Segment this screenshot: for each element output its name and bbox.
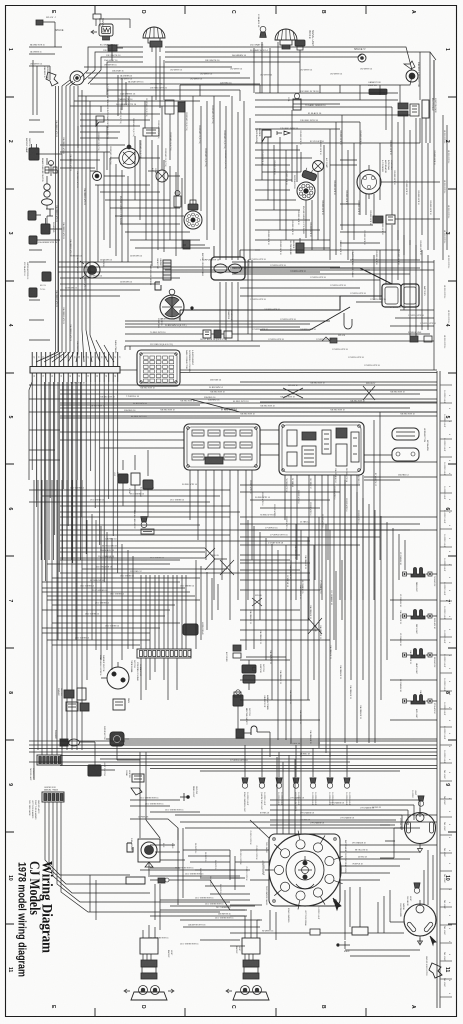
cigar lighter (132, 774, 144, 782)
wire bulb row stems (245, 762, 347, 777)
splice B cross (283, 388, 303, 398)
starting motor (160, 295, 184, 319)
marker and reflector left (46, 72, 58, 86)
headlamp dimmer comps (118, 474, 128, 483)
wire engine mid extra verticals (98, 136, 182, 266)
wire right engine horizontals (255, 150, 440, 248)
wire solenoid bus y321-346 (125, 321, 434, 346)
wire q6 extra horizontals (240, 560, 437, 720)
high beam indicator (141, 517, 147, 528)
wire tail left (143, 925, 155, 938)
wire splice fan extra (84, 67, 260, 84)
fuse panel comb (30, 367, 120, 374)
fuel pipe (127, 843, 133, 852)
horn (84, 262, 100, 278)
temperature sender right (262, 130, 271, 142)
cluster center detail (303, 861, 307, 865)
connector left edge 2 (29, 236, 37, 244)
splice arrow mid (277, 131, 290, 135)
wire big horizontal bus y745 (29, 745, 437, 762)
wire left vertical bundle upper (61, 86, 63, 148)
battery (382, 284, 401, 307)
cluster bulb row (242, 778, 248, 788)
distributor cap right (302, 167, 319, 181)
wire left bundle extra lines (55, 86, 57, 352)
wire top left corner (29, 19, 130, 115)
wire left horizontals to engine (70, 96, 230, 126)
wire white 16 run (230, 932, 404, 934)
wire y385-418 band (29, 385, 437, 416)
wire bottom center extra (150, 845, 250, 894)
headlamp right (275, 29, 297, 49)
right margin double line (437, 371, 440, 1008)
wire q7 extra (90, 800, 260, 946)
wire q6 top horizontals (240, 517, 437, 545)
wire tail right (230, 910, 262, 938)
wire q8 verticals (270, 887, 360, 940)
wire engine area horizontals (80, 132, 205, 245)
tail lamp right (242, 938, 260, 979)
wire top right drops (254, 42, 434, 143)
distributor right (297, 182, 315, 200)
wire ignition harness right (255, 93, 420, 143)
wire q8 gauge verticals (378, 850, 433, 933)
wire mid verticals to dash (220, 96, 250, 260)
voltmeter (405, 813, 436, 844)
wire bus y745 extras (60, 766, 437, 772)
wire comb q7 drops (45, 802, 230, 912)
wire left bundle lower (33, 480, 35, 750)
AC comp right (313, 161, 324, 172)
starter solenoid mid comps (203, 330, 211, 338)
wire left column links (36, 154, 62, 240)
TCS cluster (42, 272, 51, 281)
wire cluster right harness (340, 845, 437, 880)
connector left edge (28, 211, 36, 220)
neutral safety switch comp (233, 695, 243, 706)
distributor cap left (188, 204, 198, 210)
ground connector (93, 172, 102, 181)
acc feed comps (233, 645, 241, 651)
park and signal lamp right (295, 40, 305, 50)
wire headlamp bus left (88, 47, 143, 70)
wire tan right (364, 455, 437, 480)
marker and reflector right (406, 70, 418, 82)
wire left bundle mid (61, 148, 63, 262)
wire q4 right verticals (374, 220, 434, 370)
connector small 8B (108, 45, 117, 51)
fusible link comps (322, 337, 330, 341)
connector comb q7 (42, 792, 64, 802)
instrument cluster plate (269, 834, 340, 906)
wire tail feed verticals (140, 752, 160, 838)
brake failure switch (45, 161, 57, 177)
wire bus y741 (29, 740, 437, 742)
panel light ground (180, 793, 188, 801)
electronic ignition pack (422, 100, 429, 118)
windshield wiper washer switch (107, 667, 129, 689)
splice E cross (363, 386, 375, 400)
turn signal flasher (60, 739, 68, 746)
splice diagonals q5 (205, 548, 227, 570)
cluster radial stubs (265, 831, 343, 910)
wire q8 low horizontals (230, 870, 420, 956)
wire pink 18 (130, 819, 178, 840)
lighting relay block (279, 422, 364, 475)
gasoline gauge (404, 904, 436, 936)
wire right engine verticals (262, 60, 434, 260)
alternator 6 cylinder (119, 148, 139, 168)
voltmeter wires (380, 825, 395, 841)
gasoline gauge pointer (430, 936, 436, 945)
ground arrow q8 (340, 941, 350, 949)
tail lamp left (140, 938, 158, 979)
wire q6 diagonals (308, 618, 322, 634)
wire block top labels (60, 430, 279, 455)
marker and reflector bottom right (429, 963, 442, 978)
small comp q6 bottom (236, 729, 244, 738)
heat light (411, 649, 425, 659)
horn button switches right (392, 428, 419, 440)
inline resistor q8 (310, 929, 320, 935)
wire engine mid extra horizontals (60, 145, 210, 248)
wire q8 harness upper (270, 800, 420, 830)
wire upper mid verticals (112, 44, 164, 116)
splice C diagonal (252, 598, 262, 606)
light switch (88, 765, 101, 776)
wiper motor (106, 732, 129, 746)
bottom connector comb q5 (37, 755, 62, 765)
oil gauge light (414, 883, 420, 893)
wire engine area verticals (97, 96, 214, 240)
wire splice drop left (80, 70, 107, 95)
wire q7 long horizontals (175, 815, 437, 910)
wire cluster drops (235, 820, 269, 880)
wire q4 hook (344, 313, 352, 329)
dash panel boundary line (120, 370, 437, 373)
wire engine drops to comb (125, 260, 252, 350)
tail lamp right base (226, 986, 269, 1001)
wire fan into fuse comb (36, 330, 114, 362)
wire top bus extras (107, 52, 420, 103)
wire ignition links (238, 657, 286, 757)
wire q5 extra horizontals (29, 490, 230, 645)
headlamp left (143, 27, 165, 47)
oil pressure sender right (296, 243, 304, 253)
splice label top left (36, 20, 43, 25)
TCS solenoid (41, 224, 50, 234)
wire bottom middle verticals (178, 828, 235, 905)
wire q8 bulb drops (245, 745, 347, 762)
T fitting (46, 209, 54, 216)
air light (411, 695, 425, 705)
wire q4 mid horizontals (60, 399, 240, 418)
distributor left (184, 211, 202, 229)
wire q4 battery cable (180, 307, 350, 330)
fuse panel rear block (184, 424, 260, 470)
alternator 8 cylinder (357, 170, 381, 194)
parking lamp bulb right (260, 26, 266, 37)
wire gauge links (390, 900, 420, 944)
def light (411, 610, 425, 620)
splice junction left (70, 71, 84, 85)
wire q6 extra verticals (248, 480, 405, 740)
right margin stubs (440, 385, 452, 997)
splice connector top right (358, 54, 366, 62)
evaporative canister (165, 100, 174, 114)
wire q5 bottom links (34, 739, 437, 780)
wire q5 mid horizontals (42, 582, 200, 633)
wire block2 links to bus (345, 560, 375, 743)
ignition switch (242, 665, 256, 683)
capacitor jumper bar (369, 89, 387, 95)
wire bus q5 upper (60, 506, 437, 573)
headlamp left pin connector (150, 41, 162, 47)
wire comb drop left edge (29, 382, 41, 560)
cluster light above voltmeter (418, 796, 424, 806)
battery left (211, 257, 245, 280)
park brake comps (113, 699, 125, 710)
wire fuel area (126, 862, 160, 930)
temperature sender left (96, 116, 104, 126)
transmission switch circles (44, 184, 50, 190)
AC comp left (156, 170, 168, 182)
coil left (174, 196, 181, 207)
wire right margin verticals upper (443, 115, 447, 260)
backup lamp switch (29, 144, 39, 160)
wire block2 descenders (285, 412, 380, 680)
fuel sender (138, 839, 160, 862)
temperature sender mid (155, 282, 161, 290)
steering column connector block (137, 350, 180, 386)
voltage regulator rect (143, 128, 159, 136)
wire q5 verticals extra (87, 514, 218, 680)
ballast resistor (126, 877, 145, 884)
turn signal connector comb (137, 649, 191, 658)
cluster pointer arrow (333, 898, 341, 910)
dimmer switch cluster (64, 690, 74, 698)
fan light (411, 568, 425, 578)
neutral safety switch oval (42, 199, 53, 205)
instrument cluster rear view (269, 834, 341, 906)
wire headlamp bus right (165, 47, 358, 62)
junction dot mid (191, 307, 194, 310)
oil pressure sender left (183, 240, 190, 249)
capacitor jumper mid (163, 260, 171, 280)
wire block1 descenders (190, 470, 252, 650)
battery ground cable (330, 268, 392, 284)
wire green white labels (150, 880, 260, 927)
battery cable to solenoid (232, 296, 382, 310)
park and signal lamp left (91, 24, 113, 40)
wire right engine extra (255, 190, 434, 270)
starter solenoid right comps (373, 216, 383, 223)
hook comp (251, 726, 257, 735)
wire mid band extra horizontals right (240, 485, 360, 563)
wire bus to comb verticals (140, 575, 142, 649)
wire q3 left column extra (29, 120, 60, 460)
wire left bundle below comb extra (44, 382, 46, 560)
inline fuse (158, 878, 165, 883)
wire purple bus y262 (58, 262, 370, 272)
wire q6 long verticals (286, 517, 342, 757)
wire comb to wiper area (141, 658, 177, 700)
coil right (293, 99, 301, 110)
wire q4 extra horizontals (60, 262, 434, 326)
wire below comb vertical bundle (32, 382, 118, 582)
tail lamp left base (124, 986, 174, 1001)
horn relay (183, 624, 198, 635)
wire left bundle to comb (57, 262, 59, 352)
